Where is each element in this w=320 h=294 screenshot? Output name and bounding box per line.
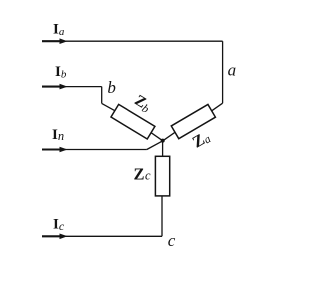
wire b diagonal to Zb [102, 103, 115, 110]
svg-text:a: a [228, 60, 237, 79]
arrow head I_c [60, 234, 68, 240]
arrow tail I_n [42, 148, 61, 150]
wire node to Zc [162, 141, 164, 157]
arrow tail I_b [42, 86, 61, 88]
wire a diagonal to Za [212, 103, 223, 111]
svg-text:Zc: Zc [134, 165, 152, 184]
arrow head I_a [60, 38, 68, 44]
svg-text:Ic: Ic [53, 217, 65, 234]
svg-text:b: b [107, 78, 116, 97]
svg-text:In: In [52, 127, 64, 143]
svg-text:Ib: Ib [55, 64, 67, 81]
svg-text:Ia: Ia [53, 21, 65, 38]
arrow head I_n [60, 147, 68, 153]
impedance Zb [111, 104, 155, 139]
arrow head I_b [60, 84, 68, 90]
node junction dot [161, 139, 165, 143]
wire I_n horizontal [42, 149, 147, 151]
impedance Za [171, 104, 215, 138]
wire Zc to c [161, 196, 163, 236]
wire I_a horizontal [42, 40, 223, 42]
arrow tail I_c [42, 235, 61, 237]
wire I_n diagonal to node [147, 141, 163, 150]
wire Zb to node [151, 133, 163, 141]
svg-text:c: c [168, 231, 176, 250]
arrow tail I_a [42, 40, 61, 42]
impedance Zc [155, 156, 169, 196]
wire b vertical [101, 87, 103, 104]
wire I_b horizontal [42, 86, 102, 88]
svg-text:Zb: Zb [131, 92, 155, 116]
wire Za to node [163, 132, 175, 141]
wire a vertical [222, 41, 224, 103]
wire I_c horizontal [42, 235, 162, 237]
